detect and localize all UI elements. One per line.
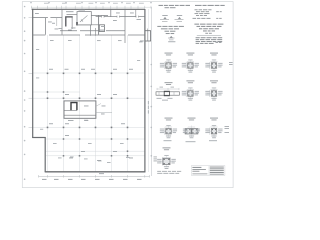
hall grid vertical lines — [48, 35, 128, 172]
drawing title 1 — [159, 5, 191, 8]
corridor north wall door jambs — [102, 16, 139, 18]
top dimension text dashes — [44, 2, 144, 5]
row4 left text column — [154, 157, 157, 162]
right column list block — [193, 9, 222, 19]
left grid bubbles — [24, 6, 26, 180]
stairwell arrow — [80, 15, 88, 22]
right grid bubbles — [151, 64, 153, 157]
detail figure row2 col3 — [205, 80, 222, 100]
section symbol b label — [177, 14, 182, 17]
right dimension line — [148, 9, 150, 172]
stairwell label — [79, 9, 86, 12]
machine room stair — [71, 103, 77, 111]
partition vertical x45 — [44, 18, 46, 35]
stair block west — [66, 15, 77, 30]
room labels top band — [35, 13, 144, 42]
room wall x95.5 — [95, 28, 97, 36]
title block divider — [208, 166, 210, 176]
top grid bubbles — [30, 2, 152, 4]
row3 col3 margin note — [225, 126, 230, 133]
column marks — [47, 73, 129, 157]
right column centered block — [194, 24, 223, 34]
right appendix shaft — [145, 29, 151, 42]
detail figure row2 col2 — [182, 80, 199, 100]
drawing title 2 block — [157, 26, 184, 34]
building outer wall right — [144, 9, 146, 172]
detail figure row1 col3 — [205, 53, 222, 73]
partition vertical x135.8 — [135, 9, 137, 16]
corridor north wall — [96, 16, 145, 18]
title block frame — [191, 166, 225, 176]
partition vertical x98.6 — [98, 15, 100, 34]
room wall x90.4 — [89, 25, 91, 36]
hall small labels — [36, 42, 143, 163]
corridor label row — [50, 40, 122, 41]
label under bottom wall — [99, 172, 104, 175]
right column title — [195, 5, 225, 6]
stairwell room — [77, 12, 91, 25]
bottom dimension ticks — [39, 175, 150, 178]
block east wall extension — [96, 112, 112, 114]
right column dense block — [196, 37, 223, 44]
right column underline — [197, 34, 221, 37]
corridor south wall lower — [33, 34, 145, 36]
partition y15.4 segment — [91, 14, 108, 16]
partition vertical x57 — [56, 18, 58, 26]
partition vertical x125 — [124, 9, 126, 43]
top dimension ticks — [32, 6, 152, 9]
row4 extra labels — [157, 171, 181, 174]
leader line near block — [97, 104, 102, 107]
building outer wall left upper — [32, 9, 34, 138]
room wall y24.8 — [77, 24, 100, 26]
top dimension line — [31, 6, 151, 8]
detail figure row4 col1 — [157, 147, 176, 169]
detail figure row1 col1 — [160, 53, 177, 73]
elevator shaft — [99, 25, 104, 32]
margin note row1 — [229, 62, 233, 65]
section symbol b — [175, 17, 184, 21]
building outer wall left lower — [44, 137, 46, 172]
building outer wall step — [32, 137, 45, 139]
panel separator line — [151, 7, 153, 176]
elevator label — [100, 30, 105, 31]
detail figure row1 col2 — [182, 53, 199, 73]
detail figure row3 col3 — [205, 118, 222, 139]
left wall outside ticks — [29, 18, 33, 128]
row3 bottom labels — [164, 140, 218, 142]
title block left text — [192, 167, 207, 174]
section symbol a label — [162, 14, 167, 17]
small symbol under title 2 — [168, 36, 175, 40]
title block right text — [210, 167, 224, 175]
detail figure row3 col1 — [160, 118, 177, 139]
bottom dimension labels — [42, 179, 142, 180]
column labels — [49, 69, 133, 161]
stair block west label — [66, 11, 74, 30]
detail figure row3 col2 double — [183, 118, 200, 139]
detail figure row2 col1 beam — [156, 82, 179, 100]
small label under symbol — [168, 40, 175, 43]
partition vertical x62 — [61, 9, 63, 34]
bottom dimension line — [39, 175, 150, 177]
hall grid horizontal lines — [33, 73, 145, 156]
building outer wall bottom — [45, 171, 146, 173]
machine room block — [64, 101, 96, 118]
stairwell room corner — [76, 22, 78, 25]
corridor south wall upper — [60, 30, 125, 32]
right margin vertical notes — [147, 101, 150, 114]
section symbol a — [160, 17, 169, 21]
partition vertical x110.8 — [110, 9, 112, 16]
partition wall room1 — [33, 17, 62, 19]
sheet frame — [22, 2, 233, 188]
building outer wall top — [32, 8, 145, 10]
machine room labels — [68, 106, 106, 121]
